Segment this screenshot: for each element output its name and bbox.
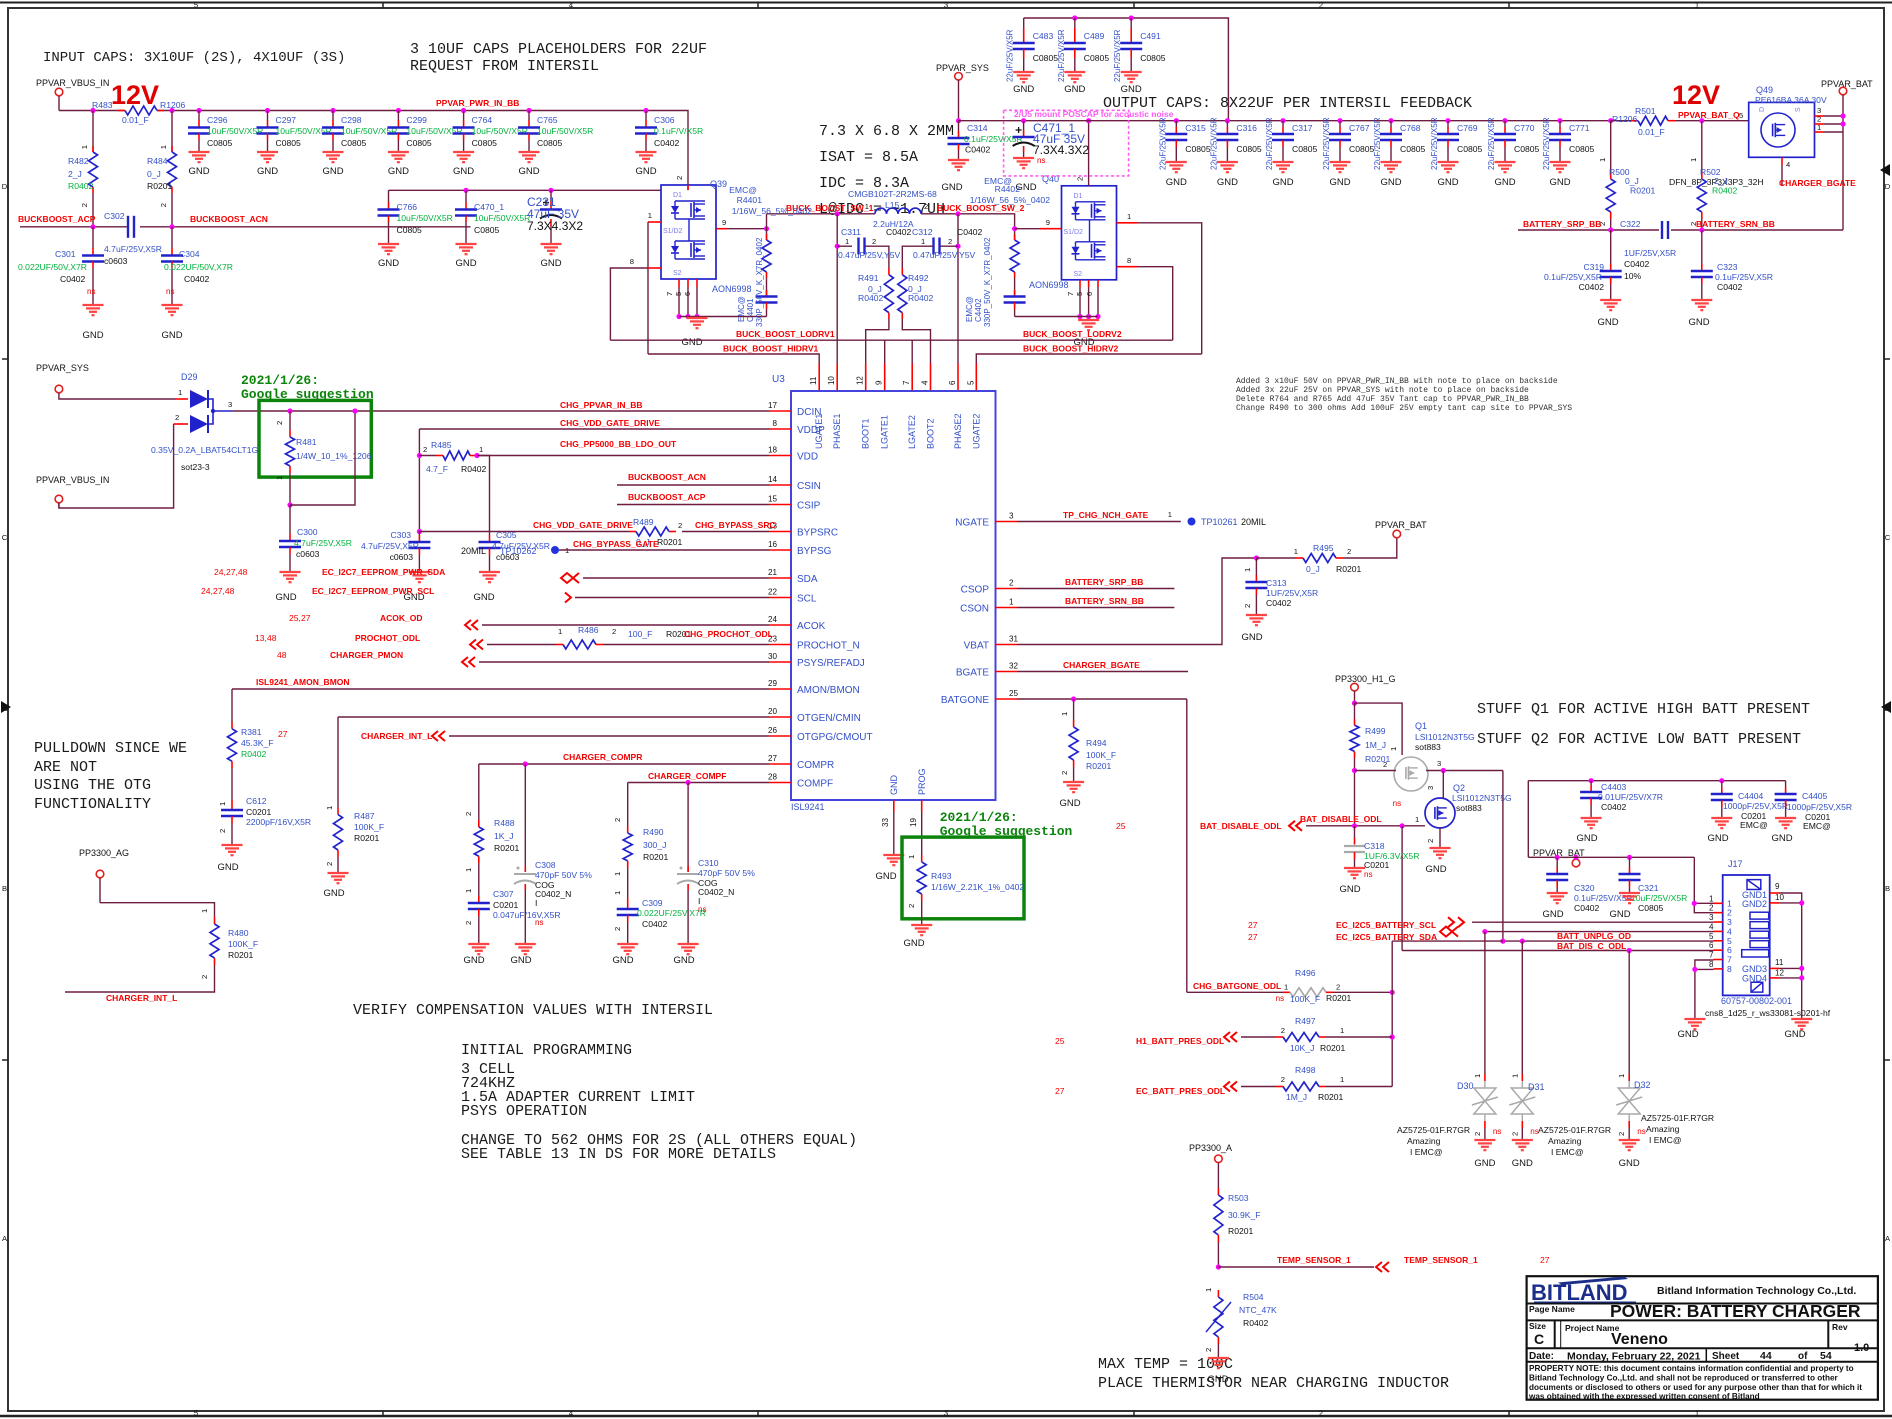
svg-text:CHARGER_COMPR: CHARGER_COMPR xyxy=(563,752,642,762)
svg-text:C0805: C0805 xyxy=(472,138,498,148)
wire BAT_DIS vertical to J17 xyxy=(1401,826,1403,951)
net BUCK_BOOST_LODRV1 xyxy=(610,339,1172,341)
svg-text:C489: C489 xyxy=(1084,31,1105,41)
svg-text:GND: GND xyxy=(612,955,633,966)
wire J17 pin1 pin2 tie xyxy=(1694,857,1713,912)
svg-text:PPVAR_BAT: PPVAR_BAT xyxy=(1821,79,1873,89)
svg-text:C303: C303 xyxy=(390,530,411,540)
svg-text:L15: L15 xyxy=(885,200,900,210)
transistor Q39 AON6998 xyxy=(661,185,716,279)
svg-text:R0402: R0402 xyxy=(908,293,934,303)
svg-text:cns8_1d25_r_ws33081-s0201-hf: cns8_1d25_r_ws33081-s0201-hf xyxy=(1705,1008,1831,1018)
svg-text:R499: R499 xyxy=(1365,726,1386,736)
svg-text:GND: GND xyxy=(903,938,924,949)
svg-text:GND: GND xyxy=(1771,833,1792,844)
wire BATGONE pin25 xyxy=(1017,698,1187,700)
ground under C301 xyxy=(83,304,104,306)
svg-text:Page Name: Page Name xyxy=(1529,1304,1575,1314)
wire PHASE1 node xyxy=(835,211,840,216)
svg-text:1: 1 xyxy=(613,891,622,895)
net BUCKBOOST_ACP pin15 xyxy=(617,504,769,506)
wire PPVAR_BAT down to battery sense xyxy=(1842,132,1844,230)
capacitor C766 xyxy=(388,190,390,202)
capacitor C322 xyxy=(1661,221,1663,239)
pin 22 SCL xyxy=(769,597,791,599)
svg-text:2: 2 xyxy=(1281,1075,1285,1084)
svg-text:C0402: C0402 xyxy=(60,274,86,284)
ground under C471_1 xyxy=(1013,157,1034,159)
capacitor C307 xyxy=(478,896,480,903)
svg-text:GND: GND xyxy=(82,330,103,341)
svg-text:PPVAR_SYS: PPVAR_SYS xyxy=(36,363,89,373)
capacitor C297 xyxy=(265,108,270,113)
pin 33 GND bottom xyxy=(893,800,895,812)
svg-text:ns: ns xyxy=(166,287,175,296)
svg-text:0_J: 0_J xyxy=(147,169,161,179)
svg-text:2: 2 xyxy=(1347,547,1351,556)
capacitor C4404 xyxy=(1719,778,1724,783)
svg-text:9: 9 xyxy=(875,380,884,385)
svg-text:H1_BATT_PRES_ODL: H1_BATT_PRES_ODL xyxy=(1136,1036,1224,1046)
svg-text:C316: C316 xyxy=(1236,123,1257,133)
resistor R499 xyxy=(1354,703,1356,719)
svg-text:COMPF: COMPF xyxy=(797,779,833,790)
svg-text:10: 10 xyxy=(827,376,836,385)
svg-text:25: 25 xyxy=(1055,1036,1065,1046)
svg-text:EC_I2C7_EEPROM_PWR_SDA: EC_I2C7_EEPROM_PWR_SDA xyxy=(322,567,445,577)
svg-text:24,27,48: 24,27,48 xyxy=(214,567,248,577)
svg-text:0.01_F: 0.01_F xyxy=(1638,127,1665,137)
svg-text:1M_J: 1M_J xyxy=(1286,1092,1307,1102)
svg-text:TEMP_SENSOR_1: TEMP_SENSOR_1 xyxy=(1404,1255,1478,1265)
svg-text:Q1: Q1 xyxy=(1415,721,1427,731)
capacitor bank C483 C489 C491 bus xyxy=(1024,18,1229,121)
svg-text:44: 44 xyxy=(1760,1350,1772,1362)
svg-text:PHASE1: PHASE1 xyxy=(832,413,842,449)
svg-text:7: 7 xyxy=(1066,292,1075,296)
svg-text:C491: C491 xyxy=(1140,31,1161,41)
svg-text:BUCK_BOOST_LODRV1: BUCK_BOOST_LODRV1 xyxy=(736,329,835,339)
svg-text:R0201: R0201 xyxy=(643,852,669,862)
resistor R493 xyxy=(921,855,923,862)
svg-text:ISL9241: ISL9241 xyxy=(791,802,825,812)
diode D32 TVS xyxy=(1628,951,1630,1075)
svg-text:9: 9 xyxy=(1775,882,1780,891)
svg-text:Q40: Q40 xyxy=(1042,174,1059,184)
ground under C767 xyxy=(1330,161,1351,163)
svg-text:Amazing: Amazing xyxy=(1548,1136,1582,1146)
net TEMP_SENSOR_1 xyxy=(1216,1264,1221,1269)
wire J17 pin4 SDA xyxy=(1484,931,1714,933)
capacitor C310 not-stuffed xyxy=(687,783,689,873)
svg-text:EMC@: EMC@ xyxy=(965,296,974,322)
svg-text:C770: C770 xyxy=(1514,123,1535,133)
svg-text:ns: ns xyxy=(1493,1127,1502,1136)
svg-text:documents or disclosed to othe: documents or disclosed to others or used… xyxy=(1529,1383,1862,1392)
svg-text:GND: GND xyxy=(1609,909,1630,920)
svg-text:0.1uF/V/X5R: 0.1uF/V/X5R xyxy=(654,126,703,136)
svg-text:GND: GND xyxy=(1121,84,1142,95)
svg-text:C322: C322 xyxy=(1620,219,1641,229)
svg-text:R498: R498 xyxy=(1295,1065,1316,1075)
capacitor C298 xyxy=(330,108,335,113)
svg-text:CSOP: CSOP xyxy=(961,585,990,596)
svg-text:C0805: C0805 xyxy=(1236,144,1262,154)
svg-text:100K_F: 100K_F xyxy=(354,822,384,832)
svg-text:33: 33 xyxy=(881,818,890,827)
svg-text:PSYS OPERATION: PSYS OPERATION xyxy=(461,1103,587,1120)
svg-text:I EMC@: I EMC@ xyxy=(1551,1147,1584,1157)
svg-text:GND: GND xyxy=(463,955,484,966)
svg-text:13,48: 13,48 xyxy=(255,633,277,643)
wire R481 jog xyxy=(287,502,292,507)
svg-text:R497: R497 xyxy=(1295,1016,1316,1026)
svg-text:Amazing: Amazing xyxy=(1646,1124,1680,1134)
svg-text:31: 31 xyxy=(1009,635,1019,644)
svg-text:28: 28 xyxy=(768,773,778,782)
svg-text:GND: GND xyxy=(875,871,896,882)
ground under C319 xyxy=(1600,299,1621,301)
svg-text:2: 2 xyxy=(1319,1,1323,10)
svg-text:GND: GND xyxy=(257,166,278,177)
svg-text:1K_J: 1K_J xyxy=(494,831,514,841)
svg-text:2: 2 xyxy=(200,975,209,979)
svg-text:S: S xyxy=(1795,107,1802,112)
svg-text:R0402: R0402 xyxy=(1243,1318,1269,1328)
resistor R484 xyxy=(169,108,174,113)
net PPVAR_BAT_Q xyxy=(1675,120,1749,122)
svg-text:TP10261: TP10261 xyxy=(1201,517,1238,527)
testpoint TP10261 xyxy=(1188,518,1196,526)
svg-text:I EMC@: I EMC@ xyxy=(1649,1135,1682,1145)
svg-text:GND: GND xyxy=(1217,177,1238,188)
svg-text:PE616BA 36A 30V: PE616BA 36A 30V xyxy=(1755,95,1827,105)
svg-text:GND: GND xyxy=(1064,84,1085,95)
svg-text:GND: GND xyxy=(1597,317,1618,328)
net CHG_BYPASS_GATE xyxy=(559,549,769,551)
svg-text:20MIL: 20MIL xyxy=(1241,517,1266,527)
svg-text:C767: C767 xyxy=(1349,123,1370,133)
capacitor C301 xyxy=(92,227,94,248)
svg-text:GND: GND xyxy=(673,955,694,966)
svg-text:48: 48 xyxy=(277,650,287,660)
wire PHASE2 node xyxy=(955,211,960,216)
svg-text:7: 7 xyxy=(1709,951,1714,960)
svg-text:1: 1 xyxy=(1689,158,1698,162)
svg-text:R487: R487 xyxy=(354,811,375,821)
capacitor C300 xyxy=(289,505,291,534)
ground under D32 xyxy=(1619,1139,1640,1141)
wire J17 pin3 SCL xyxy=(1472,921,1714,923)
svg-text:1: 1 xyxy=(1294,547,1298,556)
svg-text:0_J: 0_J xyxy=(1625,176,1639,186)
green suggestion box R493 xyxy=(902,837,1024,919)
svg-text:54: 54 xyxy=(1820,1350,1832,1362)
pin 8 VDDP xyxy=(769,428,791,430)
svg-text:8: 8 xyxy=(630,257,634,266)
svg-text:27: 27 xyxy=(768,754,778,763)
svg-text:C483: C483 xyxy=(1033,31,1054,41)
svg-text:R0201: R0201 xyxy=(228,950,254,960)
svg-text:27: 27 xyxy=(1248,920,1258,930)
wire Q1 source node xyxy=(1426,770,1503,772)
svg-text:GND: GND xyxy=(1241,632,1262,643)
svg-text:1: 1 xyxy=(1389,747,1398,751)
svg-text:5: 5 xyxy=(966,380,975,385)
svg-text:100K_F: 100K_F xyxy=(1086,750,1116,760)
svg-text:27: 27 xyxy=(1248,932,1258,942)
svg-text:C309: C309 xyxy=(642,898,663,908)
svg-text:Q39: Q39 xyxy=(710,179,727,189)
svg-text:0.022UF/25V,X7R: 0.022UF/25V,X7R xyxy=(637,908,706,918)
svg-text:10%: 10% xyxy=(1624,271,1642,281)
svg-text:D29: D29 xyxy=(181,372,198,382)
svg-text:VDDP: VDDP xyxy=(797,425,825,436)
svg-text:2/U5 mount POSCAP for acoustic: 2/U5 mount POSCAP for acoustic noise xyxy=(1014,109,1174,119)
sheet alignment arrow right xyxy=(1881,701,1891,713)
svg-text:2: 2 xyxy=(1204,1348,1213,1352)
svg-text:GND: GND xyxy=(161,330,182,341)
svg-text:R0402: R0402 xyxy=(241,749,267,759)
svg-text:1: 1 xyxy=(1284,983,1288,992)
resistor R503 xyxy=(1217,1188,1219,1195)
svg-text:C766: C766 xyxy=(397,202,418,212)
ground under Q2 xyxy=(1430,847,1451,849)
svg-text:2: 2 xyxy=(464,812,473,816)
svg-text:1: 1 xyxy=(1510,1074,1519,1078)
svg-text:2: 2 xyxy=(613,927,622,931)
ground under C310 xyxy=(678,943,699,945)
svg-text:C4401: C4401 xyxy=(746,298,755,322)
svg-text:BYPSRC: BYPSRC xyxy=(797,528,838,539)
svg-text:GND4: GND4 xyxy=(1742,974,1767,984)
svg-text:ns: ns xyxy=(698,905,707,914)
ground under C298 xyxy=(323,151,344,153)
ground under J17 right xyxy=(1791,1018,1812,1020)
svg-text:10: 10 xyxy=(1775,893,1785,902)
svg-text:I EMC@: I EMC@ xyxy=(1410,1147,1443,1157)
svg-text:R481: R481 xyxy=(296,437,317,447)
svg-text:C771: C771 xyxy=(1569,123,1590,133)
wire J17 right pins xyxy=(1770,892,1779,894)
svg-text:22uF/25V/X5R: 22uF/25V/X5R xyxy=(1006,29,1015,82)
svg-text:PROCHOT_N: PROCHOT_N xyxy=(797,641,860,652)
svg-text:C301: C301 xyxy=(55,249,76,259)
svg-text:ISL9241_AMON_BMON: ISL9241_AMON_BMON xyxy=(256,677,350,687)
net CHG_PP5000_BB_LDO_OUT xyxy=(477,455,769,457)
svg-text:c0603: c0603 xyxy=(104,256,128,266)
svg-text:OTGEN/CMIN: OTGEN/CMIN xyxy=(797,713,861,724)
capacitor C308 not-stuffed xyxy=(524,764,526,872)
svg-text:C470_1: C470_1 xyxy=(474,202,504,212)
svg-text:VBAT: VBAT xyxy=(964,641,989,652)
net CHG_BATGONE_ODL xyxy=(1187,991,1283,993)
svg-text:24,27,48: 24,27,48 xyxy=(201,586,235,596)
svg-text:BUCK_BOOST_HIDRV2: BUCK_BOOST_HIDRV2 xyxy=(1023,344,1119,354)
svg-text:1: 1 xyxy=(325,806,334,810)
svg-text:C765: C765 xyxy=(537,115,558,125)
resistor R494 xyxy=(1073,699,1075,720)
svg-text:ACOK: ACOK xyxy=(797,621,826,632)
ground under C318 xyxy=(1344,867,1365,869)
svg-text:C307: C307 xyxy=(493,889,514,899)
svg-text:0.022UF/50V,X7R: 0.022UF/50V,X7R xyxy=(18,262,87,272)
svg-text:TEMP_SENSOR_1: TEMP_SENSOR_1 xyxy=(1277,1255,1351,1265)
svg-text:1: 1 xyxy=(921,237,925,246)
svg-text:AON6998: AON6998 xyxy=(712,284,752,294)
svg-text:100K_F: 100K_F xyxy=(1290,994,1320,1004)
svg-text:0_J: 0_J xyxy=(1306,564,1320,574)
snubber resistor R4402 xyxy=(1012,226,1017,231)
svg-text:C308: C308 xyxy=(535,860,556,870)
svg-text:1: 1 xyxy=(178,388,182,397)
svg-text:GND: GND xyxy=(1688,317,1709,328)
svg-text:2: 2 xyxy=(275,421,284,425)
svg-text:5: 5 xyxy=(674,292,683,296)
capacitor C770 xyxy=(1502,118,1507,123)
svg-text:2: 2 xyxy=(1060,771,1069,775)
svg-text:C0805: C0805 xyxy=(1514,144,1540,154)
capacitor C296 xyxy=(196,108,201,113)
svg-text:10uF/50V/X5R: 10uF/50V/X5R xyxy=(537,126,593,136)
resistor R485 xyxy=(418,429,420,532)
svg-text:0.01UF/25V/X7R: 0.01UF/25V/X7R xyxy=(1598,792,1663,802)
svg-text:100K_F: 100K_F xyxy=(228,939,258,949)
svg-text:GND: GND xyxy=(1677,1029,1698,1040)
svg-text:Delete R764 and R765 Add 47uF: Delete R764 and R765 Add 47uF 35V Tant c… xyxy=(1236,395,1529,404)
svg-text:GND: GND xyxy=(1512,1158,1533,1169)
wire Q49 pins right xyxy=(1815,115,1825,117)
svg-text:10K_J: 10K_J xyxy=(1290,1043,1314,1053)
svg-text:2: 2 xyxy=(1709,904,1714,913)
svg-text:7.3X4.3X2: 7.3X4.3X2 xyxy=(527,219,583,233)
svg-text:R486: R486 xyxy=(578,625,599,635)
capacitor C317 xyxy=(1280,118,1285,123)
wire Q39 phase pin 9 xyxy=(717,228,728,230)
svg-text:D: D xyxy=(1885,182,1891,191)
svg-text:C0402: C0402 xyxy=(1717,282,1743,292)
net CHARGER_BGATE pin32 xyxy=(1017,671,1188,673)
svg-text:Q49: Q49 xyxy=(1756,85,1773,95)
svg-text:R0201: R0201 xyxy=(657,537,683,547)
svg-text:C298: C298 xyxy=(341,115,362,125)
svg-text:CHG_PP5000_BB_LDO_OUT: CHG_PP5000_BB_LDO_OUT xyxy=(560,439,677,449)
capacitor C315 xyxy=(1174,118,1179,123)
svg-text:c0603: c0603 xyxy=(296,549,320,559)
svg-text:1: 1 xyxy=(1695,1,1699,10)
svg-text:D31: D31 xyxy=(1528,1082,1545,1092)
svg-text:4: 4 xyxy=(569,1,573,10)
pin 15 CSIP xyxy=(769,504,791,506)
wire LGATE pins xyxy=(884,340,886,363)
wire battery present vertical xyxy=(1391,941,1393,1086)
capacitor C231 tantalum xyxy=(548,188,553,193)
svg-text:10uF/50V/X5R: 10uF/50V/X5R xyxy=(397,213,453,223)
svg-text:EC_BATT_PRES_ODL: EC_BATT_PRES_ODL xyxy=(1136,1086,1225,1096)
svg-text:COMPR: COMPR xyxy=(797,760,834,771)
svg-text:GND3: GND3 xyxy=(1742,964,1767,974)
svg-text:C318: C318 xyxy=(1364,841,1385,851)
capacitor C314 xyxy=(958,121,960,131)
svg-text:GND: GND xyxy=(518,166,539,177)
svg-text:GND: GND xyxy=(322,166,343,177)
svg-text:AMON/BMON: AMON/BMON xyxy=(797,685,860,696)
svg-text:ACOK_OD: ACOK_OD xyxy=(380,613,423,623)
wire PPVAR_PWR_IN_BB bus xyxy=(59,110,125,112)
svg-text:GND: GND xyxy=(455,258,476,269)
svg-text:0.1uF/25V,X5R: 0.1uF/25V,X5R xyxy=(1544,272,1602,282)
svg-text:GND: GND xyxy=(1494,177,1515,188)
net BUCKBOOST_ACN pin14 xyxy=(617,484,769,486)
svg-text:C313: C313 xyxy=(1266,578,1287,588)
svg-text:BAT_DISABLE_ODL: BAT_DISABLE_ODL xyxy=(1300,814,1382,824)
svg-text:POWER: BATTERY CHARGER: POWER: BATTERY CHARGER xyxy=(1610,1301,1861,1321)
resistor R489 bypass xyxy=(419,531,629,533)
svg-text:Added 3 x10uF 50V on PPVAR_PWR: Added 3 x10uF 50V on PPVAR_PWR_IN_BB wit… xyxy=(1236,377,1558,386)
svg-text:STUFF Q2 FOR ACTIVE LOW BATT P: STUFF Q2 FOR ACTIVE LOW BATT PRESENT xyxy=(1477,731,1801,748)
wire J17 pin7 pin8 to ground xyxy=(1695,960,1714,1019)
svg-text:REQUEST FROM INTERSIL: REQUEST FROM INTERSIL xyxy=(410,58,599,75)
svg-text:S1/D2: S1/D2 xyxy=(1064,229,1084,236)
svg-text:1000pF/25V,X5R: 1000pF/25V,X5R xyxy=(1787,802,1852,812)
svg-text:1: 1 xyxy=(1598,158,1607,162)
svg-text:2: 2 xyxy=(80,203,89,207)
ground under C300 xyxy=(280,571,301,573)
svg-text:C304: C304 xyxy=(179,249,200,259)
svg-text:ns: ns xyxy=(87,287,96,296)
svg-text:3: 3 xyxy=(1009,512,1014,521)
svg-text:12V: 12V xyxy=(1672,80,1720,110)
net BUCK_BOOST_HIDRV2 xyxy=(976,354,1201,364)
svg-text:C0805: C0805 xyxy=(1569,144,1595,154)
svg-text:21: 21 xyxy=(768,568,778,577)
svg-text:PPVAR_VBUS_IN: PPVAR_VBUS_IN xyxy=(36,78,109,88)
svg-text:4.7uF/25V,X5R: 4.7uF/25V,X5R xyxy=(361,541,419,551)
svg-text:2: 2 xyxy=(218,829,227,833)
ground under D31 xyxy=(1512,1139,1533,1141)
ground under J17 left xyxy=(1684,1018,1705,1020)
svg-text:GND: GND xyxy=(1437,177,1458,188)
svg-text:C0402: C0402 xyxy=(957,227,983,237)
svg-text:C0201: C0201 xyxy=(493,900,519,910)
pin 28 COMPF xyxy=(769,782,791,784)
svg-text:3: 3 xyxy=(1426,786,1435,790)
wire Q2 drain xyxy=(1442,771,1444,799)
pin 24 ACOK xyxy=(769,624,791,626)
ground under C483 xyxy=(1013,71,1034,73)
svg-text:GND: GND xyxy=(1013,84,1034,95)
svg-text:1/4W_10_1%_1206: 1/4W_10_1%_1206 xyxy=(296,451,372,461)
net BUCK_BOOST_SW_2 xyxy=(921,214,1015,240)
svg-text:R1206: R1206 xyxy=(1612,114,1638,124)
svg-text:1: 1 xyxy=(464,868,473,872)
svg-text:D: D xyxy=(2,182,8,191)
svg-text:PROPERTY NOTE: this document c: PROPERTY NOTE: this document contains in… xyxy=(1529,1364,1854,1373)
ground under C770 xyxy=(1495,161,1516,163)
svg-text:PP3300_A: PP3300_A xyxy=(1189,1143,1232,1153)
net BUCK_BOOST_HIDRV1 xyxy=(648,354,819,364)
svg-text:PLACE THERMISTOR NEAR CHARGING: PLACE THERMISTOR NEAR CHARGING INDUCTOR xyxy=(1098,1375,1449,1392)
svg-text:C: C xyxy=(1885,533,1891,542)
svg-text:4: 4 xyxy=(1786,160,1790,169)
svg-text:300_J: 300_J xyxy=(643,840,666,850)
capacitor C491 xyxy=(1129,15,1134,20)
svg-text:c0603: c0603 xyxy=(390,552,414,562)
resistor R483 xyxy=(118,110,125,112)
resistor R481 xyxy=(287,408,292,413)
svg-text:C0805: C0805 xyxy=(537,138,563,148)
ground under R487 xyxy=(328,872,349,874)
